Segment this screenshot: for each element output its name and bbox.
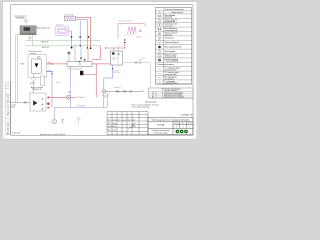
signature scribble [129, 125, 135, 130]
legend row 3: Конвектор отопит. [156, 26, 192, 28]
red header to DHW (behind manifold) [47, 63, 111, 65]
boiler return arrow (blue) [47, 71, 54, 73]
red taps [47, 97, 49, 99]
svg-text:Воздухоотводчик: Воздухоотводчик [165, 55, 178, 57]
legend row 10: Воздухоотводчик [156, 57, 192, 59]
svg-text:РГиЛ ДВ: РГиЛ ДВ [157, 125, 165, 127]
svg-text:От Т11-Т21: От Т11-Т21 [77, 106, 85, 108]
convector valves [124, 39, 125, 40]
thermometer [77, 117, 80, 120]
heating pump (bottom) [52, 119, 57, 124]
svg-text:1: 1 [183, 127, 184, 129]
manifold bottom drop [69, 66, 71, 107]
svg-text:Обозначения условные: Обозначения условные [157, 64, 174, 66]
svg-text:№док: №док [122, 119, 126, 121]
svg-text:25/15: 25/15 [11, 106, 15, 108]
gas meter (green dashed circle) [33, 73, 35, 93]
burner symbol [35, 63, 39, 67]
svg-text:теплоснабжения: теплоснабжения [165, 74, 177, 76]
svg-text:системы отопления: системы отопления [164, 90, 177, 92]
circulation pump on red line [67, 95, 71, 99]
svg-text:В1 15: В1 15 [104, 97, 108, 99]
svg-text:НВ 15-25: НВ 15-25 [42, 47, 49, 49]
svg-text:счётчик ГВ: счётчик ГВ [114, 87, 121, 89]
legend row 5: Фильтр сетчатый [156, 35, 192, 37]
middle riser (blue) [79, 21, 81, 46]
svg-text:РВ25: РВ25 [21, 63, 25, 65]
wall boiler inner body [32, 59, 42, 73]
green crosses [41, 98, 43, 110]
gas valve triangle [33, 100, 37, 105]
svg-text:Пров: Пров [108, 130, 111, 132]
svg-text:Коллектор отопления: Коллектор отопления [68, 69, 82, 71]
svg-text:теплоснабжения: теплоснабжения [165, 70, 177, 72]
svg-text:Серов: Серов [112, 130, 116, 132]
valve on water line [135, 62, 137, 64]
tap fixture [139, 59, 141, 61]
svg-text:КН 20-04: КН 20-04 [136, 37, 142, 39]
svg-text:Конвектор отопит.: Конвектор отопит. [165, 24, 178, 26]
convector return drop to DHW [106, 43, 125, 51]
legend row 11: Клапан 3х ходовой [156, 61, 192, 63]
street gas line [10, 102, 30, 104]
company logo (green) [176, 130, 188, 134]
svg-text:Листов: Листов [187, 123, 192, 125]
legend row 4: Кран шаровый со [156, 31, 192, 33]
left attribute strip cells [6, 82, 11, 135]
legend row 13: Т1 - подающая труба [156, 70, 192, 72]
second inlet stub [118, 45, 120, 51]
svg-text:ГРПШ-13-1Н: ГРПШ-13-1Н [32, 89, 42, 91]
svg-text:В1: В1 [152, 97, 154, 99]
convector coil [128, 27, 137, 34]
inlet valve [24, 102, 26, 104]
outdoor sensor symbol [25, 20, 28, 23]
svg-text:Дата: Дата [133, 119, 136, 121]
towel return (blue) [75, 20, 87, 48]
svg-text:Г - газопровод: Г - газопровод [165, 81, 175, 83]
svg-text:Лист: Лист [182, 123, 185, 125]
svg-text:Подп: Подп [128, 119, 131, 121]
DHW outlet right (cold water line) [123, 63, 151, 89]
svg-text:Ленинградская обл., Кабардинск: Ленинградская обл., Кабардинский район [151, 118, 190, 121]
stage/sheet header cells [174, 123, 192, 125]
svg-text:К-634/КЧ-ТМ: К-634/КЧ-ТМ [181, 115, 193, 117]
gas riser pipes (olive) [15, 35, 20, 103]
convector loop (red) [118, 24, 145, 38]
svg-text:от Т-к 25: от Т-к 25 [103, 95, 109, 97]
supply main T1 [25, 40, 100, 42]
legend row 6: Счётчик газа [156, 39, 192, 41]
svg-text:Полотенцесушитель: Полотенцесушитель [165, 42, 180, 44]
tank red link [83, 74, 96, 76]
boiler supply arrow (red) [47, 63, 54, 65]
paper page [3, 2, 197, 139]
boiler control box [37, 56, 40, 58]
boiler drops to mains [30, 35, 33, 46]
svg-text:Т1: Т1 [152, 92, 154, 94]
temp sensor T [62, 120, 64, 124]
svg-text:В1 - водопровод: В1 - водопровод [165, 77, 177, 79]
svg-text:НВ 15-32: НВ 15-32 [42, 42, 49, 44]
svg-text:Линев: Линев [112, 126, 116, 128]
svg-text:Изм: Изм [108, 119, 111, 121]
svg-text:Стадия: Стадия [174, 123, 179, 125]
svg-text:Серов: Серов [112, 123, 116, 125]
svg-text:Примечания: Примечания [145, 101, 157, 103]
left strip rotated text [6, 83, 9, 134]
svg-text:Взам. инв №: Взам. инв № [6, 93, 9, 103]
svg-text:Клапан термостат.: Клапан термостат. [165, 19, 179, 21]
title block: left signature grid [107, 112, 148, 135]
floor loop riser (blue) [68, 31, 71, 48]
svg-text:Отопление. Схема: Отопление. Схема [154, 133, 168, 135]
pump on service line [103, 90, 106, 93]
svg-text:АОГВ Vitogas 10: АОГВ Vitogas 10 [37, 27, 50, 30]
svg-text:Вытяжка вент. канала 150х150: Вытяжка вент. канала 150х150 [40, 134, 65, 136]
small port circle [68, 91, 70, 93]
bottom blue line to boiler [54, 93, 107, 119]
floor heating coil box [56, 27, 69, 36]
blue return path [47, 72, 53, 108]
valve bowtie on service line [116, 90, 118, 92]
red bottom line [48, 96, 76, 98]
svg-text:В1 15: В1 15 [142, 58, 146, 60]
pipe designation table [149, 88, 194, 98]
star valve [67, 51, 71, 55]
drawing frame [11, 5, 193, 135]
svg-text:Счётчик газа: Счётчик газа [165, 38, 174, 40]
svg-text:25 В: 25 В [29, 38, 32, 40]
gas filter column [41, 76, 45, 85]
distribution manifold [67, 62, 92, 67]
main red riser [92, 46, 100, 98]
svg-text:Листы альбома Р-634-091. ТМ се: Листы альбома Р-634-091. ТМ серия [132, 104, 159, 106]
svg-text:Лист: Лист [118, 119, 121, 121]
svg-text:Согл.: Согл. [7, 83, 9, 87]
svg-text:газ НД: газ НД [11, 104, 16, 106]
expansion tank (black) [80, 71, 83, 75]
floor heating coil [57, 28, 67, 34]
towel supply (red) [75, 17, 90, 48]
svg-text:ДРП 25: ДРП 25 [30, 83, 36, 85]
svg-text:ГВС 15-20: ГВС 15-20 [113, 72, 120, 74]
bottom right service line [102, 90, 143, 92]
svg-text:Т2 - обратная труба: Т2 - обратная труба [165, 72, 179, 74]
svg-text:1: 1 [189, 127, 190, 129]
junction nodes [71, 47, 73, 49]
wall boiler outer case [28, 54, 47, 77]
svg-text:Т1 - подающая труба: Т1 - подающая труба [165, 68, 180, 70]
gas inlet unit box [30, 93, 46, 111]
legend row 9: Кран шаровый [156, 53, 192, 55]
sheet background [0, 0, 200, 141]
DHW blue drop [104, 65, 113, 107]
title block: right section [148, 118, 193, 135]
legend row 16: Г - газопровод [156, 83, 192, 85]
svg-text:Подп. и дата: Подп. и дата [7, 103, 9, 115]
manifold riser drops [75, 44, 81, 62]
coil connect diagonal [124, 34, 135, 36]
DHW unit [111, 51, 123, 65]
legend row 1: Кран шаровый [156, 17, 192, 19]
towel dryer [64, 16, 75, 21]
air vent triangle [139, 29, 142, 32]
svg-text:от Т-к 25: от Т-к 25 [113, 70, 119, 72]
title block small header words [108, 119, 136, 131]
svg-text:низкого давления: низкого давления [165, 83, 178, 85]
legend row 7: Полотенцесушитель [156, 44, 192, 46]
legend row 12: Обозначения условные [156, 66, 192, 68]
svg-text:температуры: температуры [16, 17, 25, 19]
legend row 8: Насос циркуляционный [156, 48, 192, 50]
stub valves [80, 57, 81, 59]
svg-text:Система газоснабжения: Система газоснабжения [152, 130, 170, 132]
riser valves (dark) [71, 36, 72, 38]
legend row 14: Т2 - обратная труба [156, 75, 192, 77]
svg-text:Т2: Т2 [152, 95, 154, 97]
svg-text:От Т-котла: От Т-котла [77, 97, 85, 99]
svg-text:с электроприводом: с электроприводом [165, 61, 179, 63]
svg-text:реконструкция квартиры: реконструкция квартиры [132, 107, 151, 109]
return main T2 [25, 45, 100, 47]
legend row 15: В1 - водопровод [156, 79, 192, 81]
legend row 2: Клапан термостат. [156, 22, 192, 24]
svg-text:Ду 25: Ду 25 [57, 82, 61, 84]
gas boiler (grey unit) [20, 26, 36, 35]
svg-text:ГИП: ГИП [108, 123, 111, 125]
legend table: Условные обозначения [156, 8, 192, 84]
svg-text:Инв.№ подл.: Инв.№ подл. [6, 122, 9, 134]
svg-text:Кол.уч: Кол.уч [112, 119, 116, 121]
